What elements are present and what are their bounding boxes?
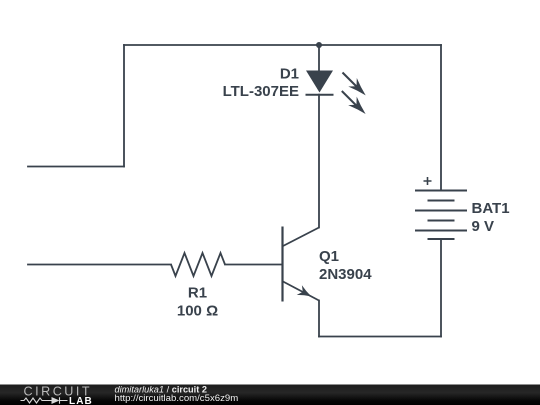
wire: left open stub to node A [28, 166, 124, 168]
battery BAT1 plate 1 (long, +) [415, 190, 467, 192]
svg-text:9 V: 9 V [472, 218, 495, 235]
battery BAT1 plate 5 (long) [415, 230, 467, 232]
wire: battery positive lead (top right vertical) [440, 45, 442, 191]
wire: top rail [124, 44, 441, 46]
LED D1 light arrow 1 head [348, 78, 365, 95]
svg-text:LAB: LAB [69, 396, 93, 405]
wire: battery negative lead down [440, 239, 442, 337]
CircuitLab logo diode triangle [52, 397, 60, 404]
LED D1 light arrow 2 head [348, 97, 365, 114]
transistor Q1 collector diagonal [283, 228, 319, 247]
LED D1 triangle (anode) [306, 71, 333, 93]
svg-text:http://circuitlab.com/c5x6z9m: http://circuitlab.com/c5x6z9m [115, 393, 239, 404]
battery BAT1 plate 6 (short, -) [428, 238, 455, 240]
svg-text:100 Ω: 100 Ω [177, 302, 218, 319]
transistor Q1 emitter arrowhead [297, 285, 312, 296]
svg-text:Q1: Q1 [319, 248, 339, 265]
wire: base stub from left edge to R1 [28, 264, 171, 266]
svg-text:2N3904: 2N3904 [319, 266, 372, 283]
battery BAT1 plate 3 (long) [415, 210, 467, 212]
wire: left vertical riser [123, 45, 125, 167]
battery BAT1 plate 4 (short) [428, 220, 455, 222]
svg-text:BAT1: BAT1 [472, 200, 510, 217]
wire: LED cathode down to Q1 collector [318, 95, 320, 228]
svg-text:R1: R1 [188, 285, 207, 302]
LED D1 cathode bar [306, 94, 334, 96]
battery BAT1 plate 2 (short) [428, 200, 455, 202]
wire: emitter lead down to bottom rail [318, 301, 320, 337]
LED D1 light arrow 2 shaft [342, 91, 357, 106]
svg-text:D1: D1 [280, 66, 299, 83]
resistor R1 zigzag [171, 253, 225, 276]
node A: junction dot on top rail [316, 42, 322, 48]
transistor Q1 emitter diagonal [283, 282, 319, 301]
transistor Q1 base bar [281, 227, 283, 302]
wire: bottom rail [319, 336, 441, 338]
battery BAT1 plus sign [424, 177, 432, 185]
svg-text:LTL-307EE: LTL-307EE [223, 83, 299, 100]
LED D1 light arrow 1 shaft [343, 73, 358, 88]
wire: R1 to Q1 base [225, 264, 283, 266]
wire: LED anode lead from top rail [318, 45, 320, 71]
CircuitLab logo resistor zigzag and diode [21, 397, 68, 404]
